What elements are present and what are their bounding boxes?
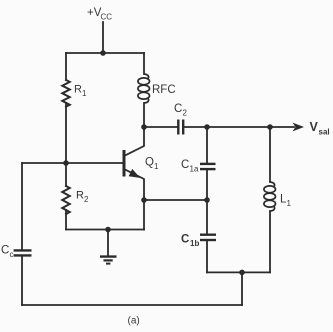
label R2 xyxy=(76,190,89,205)
capacitor C2 xyxy=(178,120,183,135)
arrow Vsal xyxy=(293,123,305,132)
svg-text:RFC: RFC xyxy=(152,84,176,96)
wire bottom rail xyxy=(22,304,242,306)
ground xyxy=(100,230,117,264)
wire L1 top lead xyxy=(269,127,271,182)
wire C1a top lead xyxy=(206,127,208,163)
wire R1 bottom lead xyxy=(65,103,67,163)
wire top rail xyxy=(66,52,144,54)
wire C1b top lead xyxy=(206,200,208,234)
svg-text:R: R xyxy=(76,190,84,202)
node collector junction xyxy=(141,124,147,130)
svg-text:CC: CC xyxy=(101,13,113,22)
node Vcc junction xyxy=(100,50,106,56)
wire C1a bottom lead xyxy=(206,170,208,200)
node emitter junction xyxy=(141,197,147,203)
svg-text:1a: 1a xyxy=(190,165,199,174)
svg-text:C: C xyxy=(181,234,189,246)
label L1 xyxy=(280,194,292,209)
wire emitter ground link xyxy=(143,200,145,230)
node ground junction xyxy=(105,227,111,233)
svg-text:2: 2 xyxy=(183,109,188,118)
svg-text:V: V xyxy=(310,120,319,134)
resistor R2 xyxy=(62,186,69,214)
wire L1 bottom lead xyxy=(269,211,271,272)
wire Vcc stem xyxy=(102,22,104,53)
node C1a top junction xyxy=(204,124,210,130)
node C1 midpoint junction xyxy=(204,197,210,203)
svg-text:1: 1 xyxy=(154,162,159,171)
svg-text:1b: 1b xyxy=(190,239,199,248)
wire output rail right xyxy=(183,126,294,128)
capacitor C1b xyxy=(200,235,216,240)
wire C1b bottom lead xyxy=(206,241,208,272)
label Q1 xyxy=(145,157,159,172)
label C1b xyxy=(181,234,199,249)
svg-text:1: 1 xyxy=(82,89,87,98)
label Vsal xyxy=(310,120,330,137)
wire R1 top lead xyxy=(65,53,67,80)
inductor L1 xyxy=(264,182,276,211)
node L1 top junction xyxy=(267,124,273,130)
svg-text:(a): (a) xyxy=(128,316,140,327)
svg-text:R: R xyxy=(74,84,82,96)
wire emitter rail xyxy=(144,199,207,201)
node base junction xyxy=(63,160,69,166)
wire Cc lower lead xyxy=(21,256,23,306)
label C1a xyxy=(181,159,199,174)
label R1 xyxy=(74,84,87,99)
capacitor Cc xyxy=(14,250,32,255)
transistor Q1 xyxy=(124,127,144,200)
svg-text:C: C xyxy=(181,159,189,171)
wire output rail left xyxy=(144,126,178,128)
inductor RFC xyxy=(138,74,150,103)
node feedback junction xyxy=(239,270,245,276)
svg-text:c: c xyxy=(10,250,14,259)
svg-text:C: C xyxy=(1,245,9,257)
svg-text:C: C xyxy=(174,103,182,115)
wire RFC top lead xyxy=(143,53,145,74)
label Cc xyxy=(1,245,14,260)
svg-text:2: 2 xyxy=(84,195,89,204)
resistor R1 xyxy=(62,80,69,107)
wire R2 bottom lead xyxy=(65,210,67,230)
wire R2 top lead xyxy=(65,163,67,186)
svg-text:+V: +V xyxy=(87,7,102,19)
svg-text:1: 1 xyxy=(287,199,292,208)
wire feedback drop xyxy=(241,272,243,305)
wire bottom right rail xyxy=(207,271,270,273)
wire base rail xyxy=(22,162,123,164)
label C2 xyxy=(174,103,188,118)
wire ground rail xyxy=(66,229,144,231)
wire RFC bottom lead xyxy=(143,103,145,127)
wire Cc upper lead xyxy=(21,163,23,250)
svg-text:Q: Q xyxy=(145,157,154,169)
label +Vcc xyxy=(87,7,112,22)
svg-text:sal: sal xyxy=(319,128,330,137)
capacitor C1a xyxy=(200,164,216,169)
